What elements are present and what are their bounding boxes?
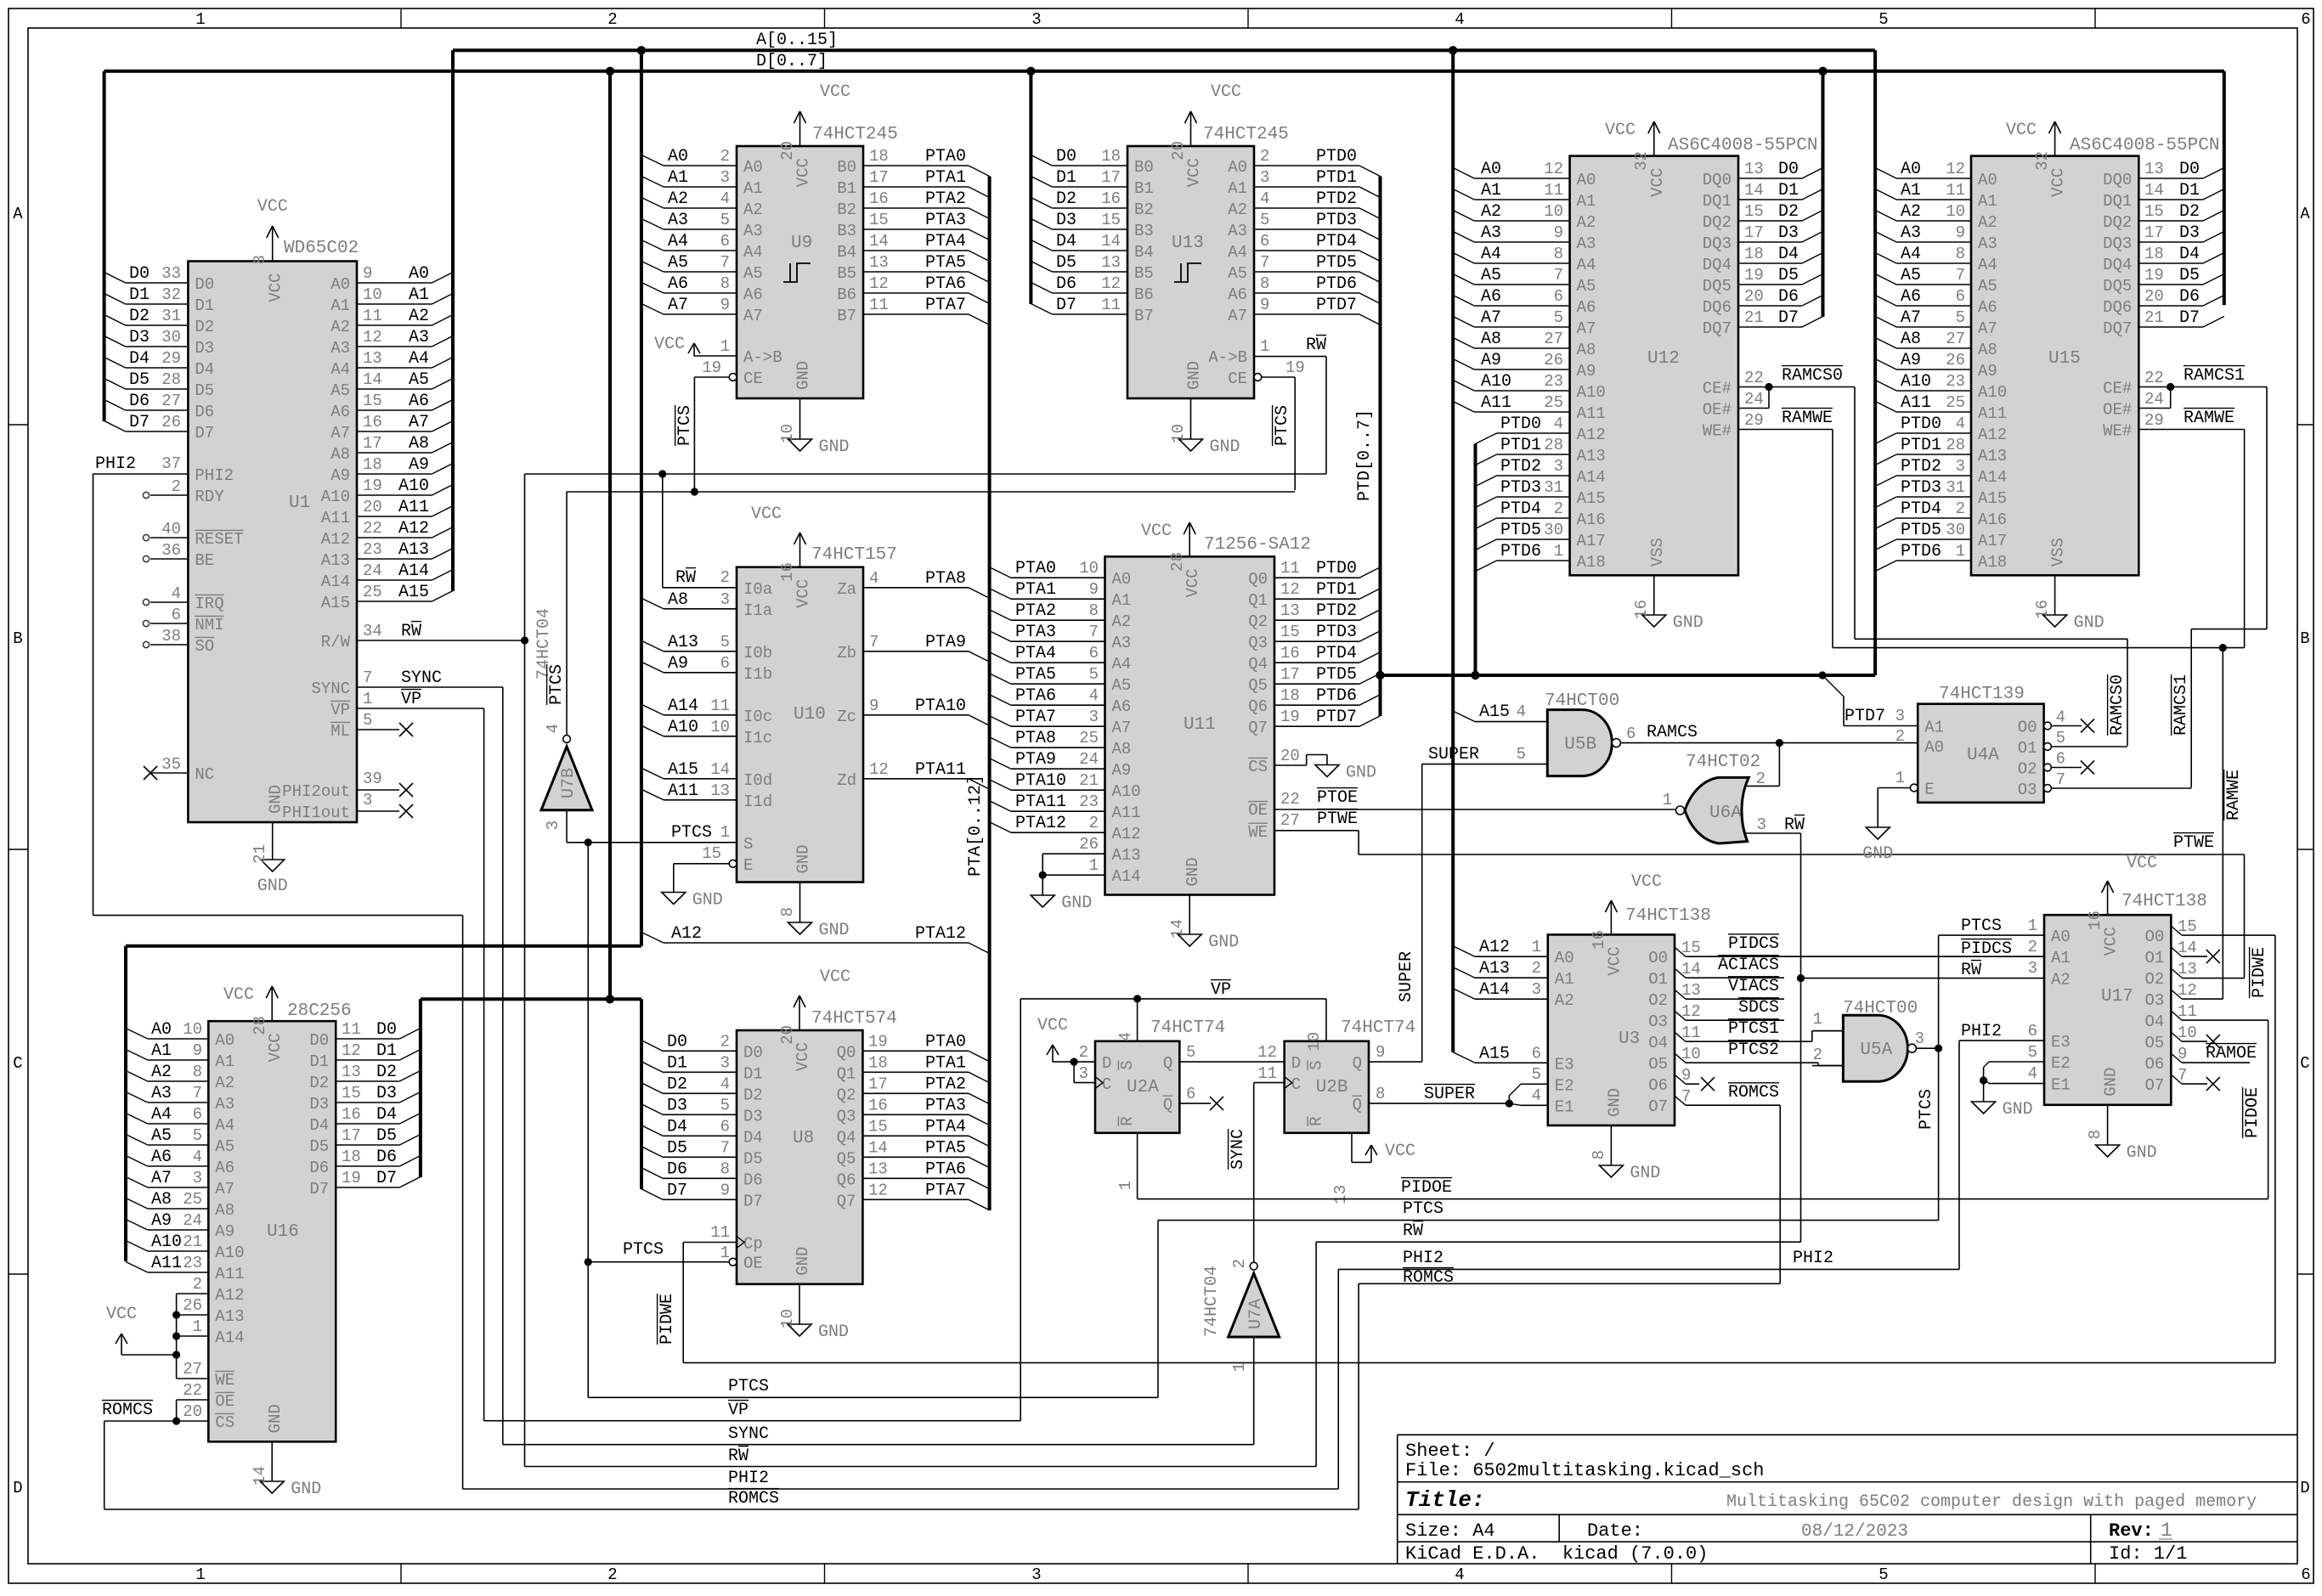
svg-text:40: 40 <box>161 520 181 539</box>
svg-text:15: 15 <box>1280 623 1300 641</box>
svg-text:22: 22 <box>1744 369 1764 387</box>
svg-text:RAMCS: RAMCS <box>1647 723 1698 742</box>
svg-text:A1: A1 <box>668 168 688 188</box>
svg-text:A14: A14 <box>321 572 350 591</box>
svg-text:PTD0: PTD0 <box>1316 147 1357 166</box>
svg-text:PTA1: PTA1 <box>1015 580 1056 600</box>
svg-text:D7: D7 <box>2179 308 2200 328</box>
svg-text:A13: A13 <box>1112 846 1141 865</box>
svg-text:A11: A11 <box>1481 393 1511 413</box>
svg-text:13: 13 <box>869 253 889 272</box>
svg-text:2: 2 <box>1813 1046 1822 1064</box>
svg-text:A3: A3 <box>1901 223 1921 243</box>
svg-text:PTD0: PTD0 <box>1500 415 1541 434</box>
svg-text:U10: U10 <box>794 705 826 725</box>
svg-text:20: 20 <box>1169 141 1188 161</box>
svg-text:A11: A11 <box>1112 804 1141 822</box>
svg-text:A1: A1 <box>151 1041 172 1061</box>
svg-text:A0: A0 <box>1112 570 1132 589</box>
svg-text:A1: A1 <box>215 1052 234 1071</box>
svg-text:PTA9: PTA9 <box>1015 750 1056 770</box>
svg-text:15: 15 <box>702 844 721 863</box>
svg-text:PTA12: PTA12 <box>915 924 966 944</box>
svg-text:I0a: I0a <box>743 580 772 599</box>
svg-text:A10: A10 <box>1901 372 1931 392</box>
svg-text:35: 35 <box>161 755 181 774</box>
svg-text:A4: A4 <box>215 1116 234 1135</box>
svg-text:Q3: Q3 <box>837 1107 856 1125</box>
svg-text:CS: CS <box>1248 758 1268 776</box>
svg-text:PIDCS: PIDCS <box>1728 934 1779 954</box>
svg-text:ROMCS: ROMCS <box>728 1489 779 1509</box>
svg-text:A18: A18 <box>1978 553 2007 572</box>
svg-text:B6: B6 <box>1134 285 1154 304</box>
svg-text:O2: O2 <box>1648 991 1668 1010</box>
svg-text:D2: D2 <box>309 1074 329 1092</box>
svg-text:4: 4 <box>1956 415 1965 433</box>
svg-text:A8: A8 <box>1481 330 1501 349</box>
svg-text:DQ7: DQ7 <box>2103 319 2132 338</box>
svg-text:20: 20 <box>363 498 382 516</box>
svg-text:U2A: U2A <box>1127 1078 1159 1097</box>
svg-text:A12: A12 <box>398 519 429 539</box>
svg-text:30: 30 <box>1544 521 1563 539</box>
svg-text:4: 4 <box>544 724 562 733</box>
svg-text:Title:: Title: <box>1405 1487 1485 1513</box>
svg-text:19: 19 <box>342 1169 361 1187</box>
svg-text:A15: A15 <box>668 760 698 780</box>
svg-text:8: 8 <box>720 274 730 293</box>
svg-text:Q7: Q7 <box>837 1192 856 1210</box>
svg-text:74HCT74: 74HCT74 <box>1150 1018 1225 1038</box>
svg-text:A0: A0 <box>1228 158 1247 177</box>
svg-text:14: 14 <box>363 370 382 389</box>
svg-text:Zd: Zd <box>837 771 856 790</box>
svg-text:4: 4 <box>1455 10 1464 29</box>
svg-text:RW: RW <box>1784 815 1805 835</box>
svg-text:A17: A17 <box>1577 532 1606 550</box>
svg-text:PTD4: PTD4 <box>1901 499 1941 519</box>
svg-text:A1: A1 <box>1555 970 1574 989</box>
svg-text:A5: A5 <box>409 370 429 390</box>
svg-text:A0: A0 <box>151 1020 172 1040</box>
svg-text:D2: D2 <box>667 1074 687 1094</box>
svg-text:20: 20 <box>1744 287 1764 306</box>
svg-text:A14: A14 <box>1112 867 1141 886</box>
svg-text:D4: D4 <box>2179 245 2200 264</box>
svg-text:PTCS: PTCS <box>675 405 695 446</box>
svg-text:Q2: Q2 <box>837 1086 856 1104</box>
svg-text:2: 2 <box>720 1032 730 1051</box>
svg-text:VP: VP <box>728 1401 749 1420</box>
svg-text:DQ3: DQ3 <box>2103 234 2132 253</box>
svg-text:6: 6 <box>2301 10 2310 29</box>
svg-text:2: 2 <box>1260 147 1269 166</box>
svg-text:5: 5 <box>193 1126 202 1145</box>
svg-text:A7: A7 <box>743 307 763 325</box>
svg-text:A3: A3 <box>1481 223 1501 243</box>
svg-text:22: 22 <box>1280 790 1300 809</box>
svg-text:D3: D3 <box>376 1084 397 1103</box>
svg-text:3: 3 <box>1915 1029 1924 1048</box>
svg-text:26: 26 <box>183 1296 202 1315</box>
svg-text:PTA3: PTA3 <box>925 211 966 230</box>
svg-text:PTA7: PTA7 <box>925 1181 966 1200</box>
svg-text:B1: B1 <box>1134 179 1154 198</box>
svg-text:25: 25 <box>1946 393 1965 412</box>
svg-text:5: 5 <box>2056 729 2065 747</box>
svg-text:A18: A18 <box>1577 553 1606 572</box>
svg-text:PTD5: PTD5 <box>1316 665 1357 685</box>
svg-text:A12: A12 <box>671 924 702 944</box>
svg-text:Q0: Q0 <box>1248 570 1268 589</box>
svg-text:PTA7: PTA7 <box>1015 708 1056 727</box>
svg-text:8: 8 <box>1376 1085 1385 1103</box>
svg-text:A7: A7 <box>1901 308 1921 328</box>
svg-text:PTD2: PTD2 <box>1316 601 1357 621</box>
svg-text:GND: GND <box>1346 764 1376 783</box>
svg-text:16: 16 <box>2033 600 2052 619</box>
svg-text:14: 14 <box>1744 181 1764 200</box>
svg-text:37: 37 <box>161 454 181 473</box>
svg-text:PTA[0..12]: PTA[0..12] <box>966 775 986 877</box>
svg-text:PTD3: PTD3 <box>1500 478 1541 498</box>
svg-text:A1: A1 <box>409 285 429 305</box>
svg-text:GND: GND <box>1862 844 1893 864</box>
svg-text:3: 3 <box>720 168 730 187</box>
svg-text:25: 25 <box>1079 729 1099 747</box>
svg-text:E1: E1 <box>2051 1076 2071 1095</box>
svg-text:PTA8: PTA8 <box>1015 729 1056 748</box>
svg-text:15: 15 <box>1681 939 1701 957</box>
svg-text:16: 16 <box>1632 600 1651 619</box>
svg-text:6: 6 <box>720 1117 730 1136</box>
svg-text:PTWE: PTWE <box>1317 809 1358 829</box>
svg-text:2: 2 <box>172 477 181 496</box>
svg-text:A2: A2 <box>1978 213 1997 232</box>
svg-text:DQ2: DQ2 <box>1703 213 1732 232</box>
svg-text:15: 15 <box>868 1117 888 1136</box>
svg-text:AS6C4008-55PCN: AS6C4008-55PCN <box>1668 136 1817 155</box>
svg-text:Cp: Cp <box>743 1235 763 1254</box>
svg-text:U13: U13 <box>1172 234 1204 253</box>
svg-text:14: 14 <box>1681 960 1701 978</box>
svg-text:I1d: I1d <box>743 792 772 811</box>
svg-text:13: 13 <box>1331 1185 1350 1204</box>
svg-text:PTA2: PTA2 <box>925 1074 966 1094</box>
svg-text:D0: D0 <box>2179 160 2200 179</box>
svg-text:2: 2 <box>607 1565 617 1584</box>
svg-text:9: 9 <box>1956 223 1965 242</box>
svg-text:A6: A6 <box>1901 287 1921 307</box>
svg-text:A4: A4 <box>668 232 688 251</box>
svg-text:PHI2: PHI2 <box>1793 1249 1833 1268</box>
svg-text:74HCT574: 74HCT574 <box>811 1009 897 1029</box>
svg-text:15: 15 <box>342 1084 361 1103</box>
svg-text:VCC: VCC <box>1385 1142 1415 1161</box>
svg-text:Q4: Q4 <box>1248 655 1268 674</box>
svg-text:VCC: VCC <box>1648 168 1667 197</box>
svg-text:15: 15 <box>363 392 382 410</box>
svg-text:2: 2 <box>1230 1259 1249 1268</box>
svg-text:13: 13 <box>710 781 730 800</box>
svg-text:7: 7 <box>1089 623 1099 641</box>
svg-text:A4: A4 <box>1577 256 1596 274</box>
svg-text:VCC: VCC <box>1211 82 1241 102</box>
svg-text:A6: A6 <box>151 1148 172 1167</box>
svg-text:26: 26 <box>161 413 181 431</box>
svg-text:5: 5 <box>720 633 730 651</box>
svg-text:6: 6 <box>1260 232 1269 251</box>
svg-text:25: 25 <box>183 1190 202 1209</box>
svg-text:D6: D6 <box>309 1159 329 1177</box>
svg-text:D4: D4 <box>667 1117 687 1136</box>
svg-text:RW: RW <box>1961 961 1981 980</box>
svg-text:Q5: Q5 <box>837 1149 856 1168</box>
svg-text:VCC: VCC <box>820 967 850 987</box>
svg-text:5: 5 <box>1186 1043 1195 1062</box>
svg-text:PTA4: PTA4 <box>925 1117 966 1136</box>
svg-text:A->B: A->B <box>743 348 782 367</box>
svg-text:A3: A3 <box>668 211 688 230</box>
svg-text:18: 18 <box>1101 147 1121 166</box>
svg-text:C: C <box>2300 1054 2309 1073</box>
svg-text:O7: O7 <box>2144 1076 2164 1095</box>
svg-text:Size: A4: Size: A4 <box>1405 1520 1495 1542</box>
svg-text:A2: A2 <box>668 189 688 209</box>
svg-text:18: 18 <box>342 1148 361 1166</box>
svg-text:A7: A7 <box>1577 319 1596 338</box>
svg-text:10: 10 <box>1169 424 1188 443</box>
svg-text:3: 3 <box>544 821 562 830</box>
svg-text:A11: A11 <box>668 781 698 801</box>
svg-text:A13: A13 <box>1577 447 1606 465</box>
svg-text:25: 25 <box>363 583 382 601</box>
svg-text:U4A: U4A <box>1967 746 1999 765</box>
svg-text:PTA11: PTA11 <box>1015 792 1066 812</box>
svg-text:D0: D0 <box>129 264 150 284</box>
svg-text:14: 14 <box>710 760 730 779</box>
svg-text:A12: A12 <box>321 530 350 549</box>
svg-text:32: 32 <box>1632 151 1651 171</box>
svg-text:A8: A8 <box>331 445 350 464</box>
svg-text:VCC: VCC <box>1605 121 1636 140</box>
svg-text:D5: D5 <box>1778 266 1799 285</box>
svg-text:A13: A13 <box>668 633 698 652</box>
svg-text:I1a: I1a <box>743 601 772 620</box>
svg-text:A5: A5 <box>1112 676 1132 695</box>
svg-text:3: 3 <box>1757 815 1766 834</box>
svg-text:5: 5 <box>1956 308 1965 327</box>
svg-text:A9: A9 <box>331 466 350 485</box>
svg-text:A8: A8 <box>151 1190 172 1210</box>
svg-text:D0: D0 <box>309 1031 329 1050</box>
svg-text:A1: A1 <box>1978 192 1997 211</box>
svg-text:D6: D6 <box>2179 287 2200 307</box>
svg-text:D1: D1 <box>129 285 150 305</box>
svg-text:U11: U11 <box>1184 715 1216 735</box>
svg-text:PHI2: PHI2 <box>728 1469 769 1488</box>
svg-text:PTD4: PTD4 <box>1316 644 1357 663</box>
svg-text:A12: A12 <box>1577 426 1606 444</box>
svg-text:A: A <box>13 205 23 223</box>
svg-text:D4: D4 <box>743 1128 763 1147</box>
svg-text:R: R <box>1118 1116 1137 1125</box>
svg-text:A8: A8 <box>1901 330 1921 349</box>
svg-text:23: 23 <box>363 540 382 559</box>
svg-text:PTD1: PTD1 <box>1500 436 1541 455</box>
svg-text:A6: A6 <box>215 1159 234 1177</box>
svg-text:C: C <box>1291 1075 1301 1094</box>
svg-text:RW: RW <box>675 568 696 588</box>
svg-text:D5: D5 <box>376 1126 397 1146</box>
svg-text:PTA1: PTA1 <box>925 168 966 188</box>
svg-text:ROMCS: ROMCS <box>102 1401 153 1420</box>
svg-text:3: 3 <box>2028 959 2037 978</box>
svg-text:A7: A7 <box>668 296 688 315</box>
svg-text:ML: ML <box>331 722 350 741</box>
svg-text:4: 4 <box>172 584 181 603</box>
svg-text:12: 12 <box>1681 1002 1701 1021</box>
svg-text:GND: GND <box>819 437 850 457</box>
svg-text:16: 16 <box>869 189 889 208</box>
svg-text:6: 6 <box>1554 287 1563 306</box>
svg-text:9: 9 <box>720 296 730 314</box>
svg-text:24: 24 <box>363 561 382 580</box>
svg-text:31: 31 <box>161 307 181 325</box>
svg-text:PTD0: PTD0 <box>1316 559 1357 578</box>
svg-text:PTD5: PTD5 <box>1901 521 1941 540</box>
svg-text:23: 23 <box>1079 792 1099 811</box>
svg-text:A0: A0 <box>331 275 350 294</box>
svg-text:5: 5 <box>1879 1565 1888 1584</box>
svg-text:21: 21 <box>183 1232 202 1251</box>
svg-text:2: 2 <box>1756 770 1766 788</box>
svg-text:A9: A9 <box>1901 351 1921 370</box>
svg-text:10: 10 <box>1079 559 1099 578</box>
svg-text:Q0: Q0 <box>837 1043 856 1062</box>
svg-text:D3: D3 <box>195 339 214 358</box>
svg-text:PHI2: PHI2 <box>1403 1249 1443 1268</box>
svg-text:D5: D5 <box>667 1138 687 1158</box>
svg-text:PTD5: PTD5 <box>1500 521 1541 540</box>
svg-text:D2: D2 <box>195 318 214 336</box>
svg-text:10: 10 <box>1681 1045 1701 1063</box>
svg-text:E1: E1 <box>1555 1097 1574 1116</box>
svg-text:Q: Q <box>1353 1096 1362 1114</box>
svg-text:11: 11 <box>1946 181 1965 200</box>
svg-text:WE: WE <box>1248 823 1268 842</box>
svg-text:14: 14 <box>2178 939 2197 957</box>
svg-text:GND: GND <box>1630 1164 1660 1183</box>
svg-text:19: 19 <box>1280 708 1300 726</box>
svg-text:A5: A5 <box>215 1137 234 1156</box>
svg-text:12: 12 <box>869 274 889 293</box>
svg-text:Rev:: Rev: <box>2109 1520 2154 1542</box>
svg-text:17: 17 <box>1744 223 1764 242</box>
svg-text:D1: D1 <box>2179 181 2200 200</box>
svg-text:2: 2 <box>1895 727 1905 746</box>
svg-text:A4: A4 <box>409 349 429 369</box>
svg-text:32: 32 <box>161 285 181 304</box>
svg-text:B7: B7 <box>837 307 856 325</box>
svg-text:GND: GND <box>818 1322 849 1342</box>
svg-text:18: 18 <box>1744 245 1764 263</box>
svg-text:O0: O0 <box>1648 949 1668 967</box>
svg-text:PTCS: PTCS <box>547 664 567 705</box>
svg-text:9: 9 <box>193 1041 202 1060</box>
svg-text:1: 1 <box>195 10 205 29</box>
svg-text:SYNC: SYNC <box>311 680 350 698</box>
svg-text:11: 11 <box>1544 181 1563 200</box>
svg-text:3: 3 <box>1956 457 1965 476</box>
svg-text:7: 7 <box>363 668 372 687</box>
svg-text:A0: A0 <box>1577 171 1596 189</box>
svg-text:17: 17 <box>363 434 382 453</box>
svg-text:GND: GND <box>2003 1100 2033 1119</box>
svg-text:D3: D3 <box>743 1107 763 1125</box>
svg-text:VCC: VCC <box>794 158 813 187</box>
svg-text:A11: A11 <box>1901 393 1931 413</box>
svg-text:3: 3 <box>1031 10 1041 29</box>
svg-text:PTD2: PTD2 <box>1500 457 1541 477</box>
svg-text:7: 7 <box>2056 770 2065 789</box>
svg-text:A1: A1 <box>1481 181 1501 200</box>
svg-text:A0: A0 <box>1901 160 1921 179</box>
svg-text:28: 28 <box>1544 436 1563 454</box>
svg-text:VCC: VCC <box>794 579 813 608</box>
svg-text:10: 10 <box>183 1020 202 1039</box>
svg-text:24: 24 <box>183 1211 202 1230</box>
svg-text:PTCS: PTCS <box>1917 1089 1936 1130</box>
svg-text:A8: A8 <box>668 590 688 610</box>
svg-text:Q1: Q1 <box>1248 591 1268 610</box>
svg-text:O1: O1 <box>2144 949 2164 967</box>
svg-text:11: 11 <box>1257 1064 1277 1083</box>
svg-text:A1: A1 <box>1112 591 1132 610</box>
svg-text:VCC: VCC <box>257 197 288 217</box>
svg-text:13: 13 <box>2178 960 2197 978</box>
svg-text:8: 8 <box>778 907 797 916</box>
svg-text:14: 14 <box>868 1138 888 1157</box>
svg-text:BE: BE <box>195 551 214 570</box>
svg-text:7: 7 <box>720 253 730 272</box>
svg-text:11: 11 <box>2178 1002 2197 1021</box>
svg-text:Q: Q <box>1163 1054 1172 1073</box>
svg-text:I0b: I0b <box>743 644 772 663</box>
svg-text:1: 1 <box>1260 337 1269 356</box>
svg-text:11: 11 <box>710 1223 730 1242</box>
svg-text:PTA5: PTA5 <box>1015 665 1056 685</box>
svg-text:A14: A14 <box>215 1328 244 1347</box>
svg-text:GND: GND <box>794 1247 812 1276</box>
svg-text:RW: RW <box>728 1447 749 1466</box>
svg-text:11: 11 <box>1681 1024 1701 1042</box>
svg-text:1: 1 <box>1532 938 1541 956</box>
svg-text:29: 29 <box>1744 411 1764 430</box>
svg-text:PIDOE: PIDOE <box>2243 1087 2263 1138</box>
svg-text:O5: O5 <box>1648 1055 1668 1074</box>
svg-text:4: 4 <box>193 1148 202 1166</box>
svg-text:VCC: VCC <box>267 274 285 302</box>
svg-text:PTD3: PTD3 <box>1901 478 1941 498</box>
svg-text:PTD[0..7]: PTD[0..7] <box>1355 409 1375 501</box>
svg-text:12: 12 <box>1280 580 1300 599</box>
svg-text:2: 2 <box>1554 499 1563 518</box>
svg-text:15: 15 <box>869 211 889 229</box>
svg-text:R/W: R/W <box>321 633 351 651</box>
svg-text:VSS: VSS <box>1648 538 1667 567</box>
